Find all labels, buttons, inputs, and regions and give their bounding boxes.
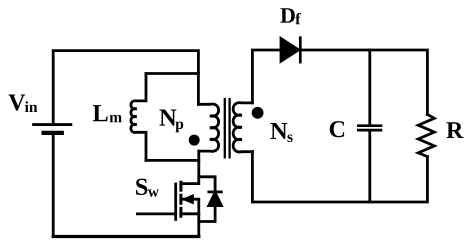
transformer secondary winding Ns — [233, 103, 252, 152]
body diode triangle — [209, 193, 222, 206]
diode Df triangle — [281, 39, 299, 62]
node dot primary polarity — [189, 135, 200, 146]
label Df D — [280, 8, 294, 22]
label Ns N — [270, 123, 287, 139]
wire secondary top to diode anode — [252, 50, 281, 103]
wire bottom primary — [53, 235, 199, 238]
label Df f — [295, 13, 300, 24]
transformer core bar 2 — [228, 99, 230, 157]
transformer core bar 1 — [224, 99, 226, 157]
wire diode cathode to top-right corner then down to R — [300, 50, 427, 115]
wire top-left loop from Vin to primary — [53, 51, 198, 124]
capacitor C bottom plate — [358, 129, 381, 132]
MOSFET Sw drain lead and drain wire up to winding — [181, 151, 199, 184]
resistor R zigzag — [418, 115, 434, 157]
body diode cathode bar — [209, 191, 222, 194]
battery Vin short plate — [44, 131, 62, 135]
diode Df cathode bar — [299, 38, 302, 62]
wire capacitor branch lower — [368, 132, 371, 203]
transformer primary winding Np — [198, 104, 218, 151]
label Np N — [159, 110, 176, 126]
wire parallel-rect bottom — [146, 159, 199, 162]
capacitor C top plate — [358, 124, 381, 127]
MOSFET Sw channel segment bottom — [179, 208, 182, 216]
wire parallel-rect top — [146, 72, 198, 75]
label Vin in — [25, 101, 37, 112]
MOSFET Sw gate bar — [174, 184, 177, 219]
wire capacitor branch upper — [368, 50, 371, 124]
label Lm L — [93, 105, 108, 121]
body diode branch bottom wire — [199, 206, 215, 222]
wire secondary bottom — [252, 152, 427, 202]
label Np p — [175, 122, 183, 133]
body diode branch top wire — [199, 177, 215, 192]
label R — [446, 122, 463, 138]
inductor Lm — [131, 74, 146, 161]
MOSFET Sw body arrow — [183, 195, 194, 204]
label C — [330, 121, 344, 137]
label Ns s — [287, 134, 292, 141]
label Sw w — [148, 189, 159, 196]
node dot secondary polarity — [252, 107, 264, 119]
battery Vin long plate — [34, 123, 71, 126]
MOSFET Sw channel segment top — [179, 182, 182, 190]
MOSFET Sw body connection to source — [183, 199, 199, 214]
MOSFET Sw channel segment middle — [179, 195, 182, 203]
label Lm m — [110, 115, 122, 122]
label Vin V — [8, 94, 25, 110]
wire battery negative to bottom-left corner — [52, 135, 55, 237]
MOSFET Sw gate lead — [137, 212, 175, 215]
MOSFET Sw source lead — [181, 214, 199, 237]
label Sw S — [136, 179, 147, 195]
